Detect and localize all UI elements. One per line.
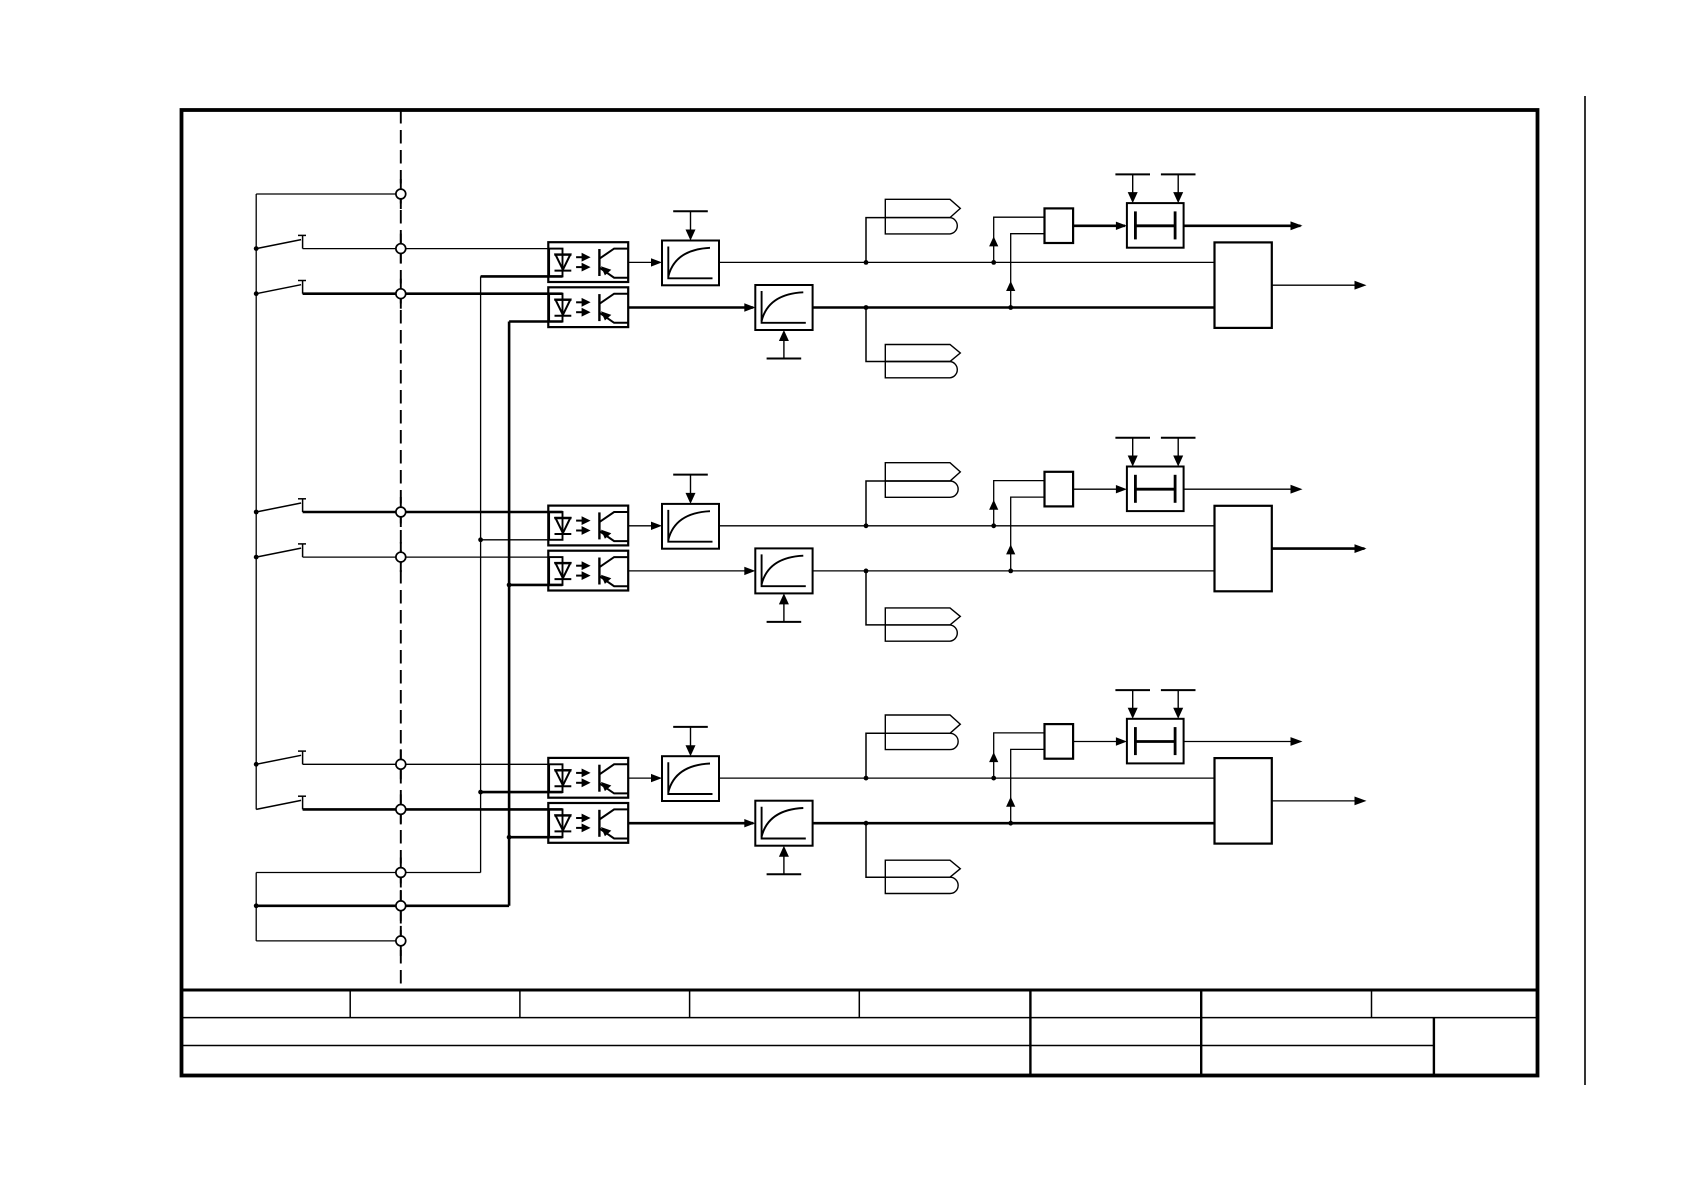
block K3 [1045,724,1074,759]
terminal X31 [400,749,402,779]
block K2 [1045,472,1074,507]
wire branch to block K1 input 1 [994,217,1045,262]
title block divider 2 [519,990,521,1018]
parameter input T31 [673,726,708,728]
switch S12 (NO contact) [256,285,301,294]
parameter input T13 [1115,173,1150,175]
signal flag B11a (pointed) [885,199,960,217]
wire U22 output to filter F22 [628,570,753,572]
wire stub to connector flags B21 [866,481,885,526]
wire switch S22 to terminal [303,556,549,558]
wire U21 cathode return [481,539,563,541]
wire U11 output to filter F11 [628,261,660,263]
wire switch S32 to terminal [303,808,549,811]
junction at flag stub B21 [864,523,869,528]
wire sampler A1 output [1184,225,1301,228]
signal flag B12b (rounded) [885,362,957,378]
output arrow sampler A3 [1291,737,1303,746]
wire thin bus to terminal X02 [256,872,480,874]
parameter input T22 [767,621,802,623]
wire U32 output to filter F32 [628,822,753,825]
wire thick bus to terminal X03 [256,904,509,907]
signal flag B11b (rounded) [885,218,957,234]
junction at terminal X03 wire [254,903,259,908]
wire U12 cathode return [509,320,562,323]
title block row line 2 [182,1045,1434,1047]
wire stub to connector flags B22 [866,571,885,625]
parameter input T12 [767,358,802,360]
flow arrow on branch 2 row 1 [1006,281,1015,291]
signal flag B22a (pointed) [885,608,960,625]
wire stub to connector flags B31 [866,733,885,778]
wire branch to block K3 input 2 [1011,749,1045,823]
switch S31 (NO contact) [256,755,301,764]
wire U31 anode input [548,763,563,765]
switch S21 (NO contact) [256,503,301,512]
wire common bus (thick) for lower optocouplers [508,322,511,906]
junction upper signal branch 3 [991,776,996,781]
switch S32 (NO contact) [256,800,301,809]
flow arrow on branch 1 row 3 [989,752,998,762]
wire filter F31 output (upper signal) [719,777,1215,779]
optocoupler U12 [548,287,628,327]
wire filter F32 output (lower signal) [813,822,1215,825]
signal flag B32a (pointed) [885,860,960,877]
junction at switch S21 [254,510,259,515]
signal flag B21a (pointed) [885,463,960,481]
junction at switch S12 [254,291,259,296]
terminal X12 [400,279,402,309]
sampler block A1 [1127,203,1184,248]
PT1 filter block F32 [755,801,812,846]
optocoupler U21 [548,506,628,546]
junction at flag stub B31 [864,776,869,781]
title block top line [182,989,1538,992]
terminal X02 [400,858,402,888]
wire U12 output to filter F12 [628,306,753,309]
optocoupler U22 [548,551,628,591]
PT1 filter block F22 [755,548,812,593]
junction lower signal branch 1 [1008,305,1013,310]
wire function block G2 output [1272,547,1365,550]
optocoupler U11 [548,242,628,282]
title block divider 4 [858,990,860,1018]
parameter input T11 [673,210,708,212]
junction at flag stub B12 [864,305,869,310]
flow arrow on branch 2 row 2 [1006,544,1015,554]
output arrow sampler A2 [1291,485,1303,494]
junction lower signal branch 3 [1008,821,1013,826]
output arrow block G3 [1355,797,1367,806]
wire stub to connector flags B32 [866,823,885,877]
wire stub to connector flags B12 [866,308,885,362]
wire left drop at terminal X02 [255,873,257,941]
wire U31 cathode return [481,791,563,794]
wire U21 output to filter F21 [628,525,660,527]
wire block K1 to sampler block [1073,225,1125,228]
junction at switch S31 [254,762,259,767]
wire switch S31 to terminal [303,763,549,765]
wire sampler A2 output [1184,488,1301,490]
wire U32 anode input [548,808,563,811]
wire switch S11 to terminal [303,248,549,250]
terminal X01 [400,179,402,209]
wire branch to block K2 input 1 [994,481,1045,526]
wire U11 anode input [548,248,563,250]
signal flag B12a (pointed) [885,345,960,362]
wire U21 anode input [548,511,563,514]
sampler block A2 [1127,467,1184,512]
junction lower signal branch 2 [1008,569,1013,574]
junction at switch S11 [254,246,259,251]
wire switch S12 to terminal [303,292,549,295]
wire function block G3 output [1272,800,1365,802]
PT1 filter block F12 [755,285,812,330]
signal flag B31b (rounded) [885,733,958,749]
wire filter F21 output (upper signal) [719,525,1215,527]
wire sampler A3 output [1184,741,1301,743]
output arrow block G2 [1355,544,1367,553]
junction upper signal branch 1 [991,260,996,265]
wire function block G1 output [1272,284,1365,286]
terminal X21 [400,497,402,527]
switch S11 (NO contact) [256,240,301,249]
junction thick bus row 2 [507,583,512,588]
junction upper signal branch 2 [991,523,996,528]
parameter input T14 [1161,173,1196,175]
wire stub to connector flags B11 [866,218,885,263]
terminal X04 [400,926,402,956]
block K1 [1045,208,1074,243]
page edge mark line [1584,96,1586,1085]
signal flag B32b (rounded) [885,877,958,893]
wire branch to block K2 input 2 [1011,497,1045,571]
flow arrow on branch 1 row 2 [989,500,998,510]
wire U31 output to filter F31 [628,777,660,779]
switch S22 (NO contact) [256,548,301,557]
terminal X11 [400,234,402,264]
wire block K3 to sampler block [1073,741,1125,743]
wire U12 anode input [548,292,563,295]
title block divider 1 [349,990,351,1018]
wire to terminal X04 [256,940,401,942]
terminal X03 [400,891,402,921]
wire filter F22 output (lower signal) [813,570,1215,572]
title block stamp cell divider [1433,1018,1435,1076]
wire filter F11 output (upper signal) [719,261,1215,263]
function block G2 [1215,506,1272,592]
junction at flag stub B32 [864,821,869,826]
signal flag B22b (rounded) [885,625,957,641]
sampler block A3 [1127,719,1184,764]
PT1 filter block F11 [662,241,719,286]
title block heavy divider 1 [1029,990,1031,1076]
optocoupler U31 [548,758,628,798]
signal flag B31a (pointed) [885,715,960,733]
junction at switch S22 [254,555,259,560]
title block divider 3 [689,990,691,1018]
flow arrow on branch 2 row 3 [1006,797,1015,807]
parameter input T32 [767,873,802,875]
PT1 filter block F31 [662,756,719,801]
output arrow block G1 [1355,281,1367,290]
wire common bus (thin) for upper optocouplers [480,276,482,872]
parameter input T24 [1161,437,1196,439]
flow arrow on branch 1 row 1 [989,236,998,246]
wire branch to block K1 input 2 [1011,234,1045,308]
wire U22 anode input [548,556,563,558]
parameter input T21 [673,474,708,476]
parameter input T33 [1115,689,1150,691]
function block G3 [1215,758,1272,844]
wire U22 cathode return [509,584,562,587]
title block row line 1 [182,1017,1538,1019]
parameter input T23 [1115,437,1150,439]
title block heavy divider 2 [1200,990,1202,1076]
wire branch to block K3 input 1 [994,733,1045,778]
wire U11 cathode return [481,275,563,278]
terminal X22 [400,542,402,572]
wire switch S21 to terminal [303,511,549,514]
wire filter F12 output (lower signal) [813,306,1215,309]
terminal X32 [400,794,402,824]
output arrow sampler A1 [1291,221,1303,230]
junction thin bus row 2 [478,537,483,542]
PT1 filter block F21 [662,504,719,549]
junction thick bus row 3 [507,835,512,840]
optocoupler U32 [548,803,628,843]
wire top stub to terminal X01 [256,193,401,195]
dashed terminal boundary line [400,110,402,990]
junction at flag stub B11 [864,260,869,265]
wire U32 cathode return [509,836,562,839]
junction thin bus row 3 [478,790,483,795]
parameter input T34 [1161,689,1196,691]
drawing frame border [182,110,1538,1076]
title block divider 5 [1371,990,1373,1018]
function block G1 [1215,242,1272,328]
wire block K2 to sampler block [1073,488,1125,490]
wire left vertical bus [255,194,257,809]
junction at flag stub B22 [864,569,869,574]
signal flag B21b (rounded) [885,481,958,497]
